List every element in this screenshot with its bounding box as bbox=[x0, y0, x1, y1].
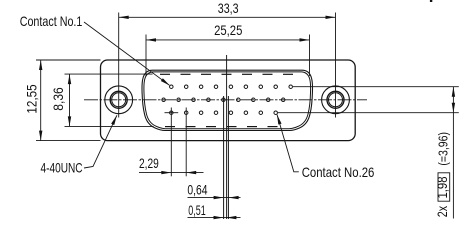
bottom row right extension bbox=[278, 112, 459, 114]
left hole vertical centerline / 33,3 extension bbox=[118, 13, 120, 118]
svg-text:(=3,96): (=3,96) bbox=[436, 132, 451, 166]
flange outline bbox=[101, 60, 356, 141]
svg-text:4-40UNC: 4-40UNC bbox=[41, 160, 83, 176]
dim 25,25 right extension bbox=[309, 35, 311, 77]
pin 19 extension line down bbox=[170, 108, 172, 177]
contacts middle row 10-18 bbox=[162, 98, 285, 102]
right dim line 2x1,98 bbox=[452, 87, 454, 219]
dim 8,36 bottom extension bbox=[65, 125, 154, 127]
leader arrow contact no.1 bbox=[161, 78, 171, 87]
0,51 arrows bbox=[214, 216, 224, 219]
dim 12,55 top extension bbox=[36, 59, 101, 61]
leader arrow 4-40UNC bbox=[111, 115, 118, 125]
dim 12,55 line bbox=[40, 60, 42, 141]
33,3 arrows bbox=[119, 16, 129, 19]
dim 33,3 line bbox=[119, 16, 336, 18]
contact tail right edge bbox=[227, 96, 229, 219]
horizontal centerline bbox=[84, 99, 367, 101]
svg-text:0,64: 0,64 bbox=[187, 182, 207, 198]
svg-text:0,51: 0,51 bbox=[188, 202, 206, 218]
shell outer outline bbox=[142, 70, 312, 130]
1,98 arrows bbox=[452, 87, 455, 97]
svg-text:8,36: 8,36 bbox=[50, 87, 66, 111]
12,55 arrows bbox=[39, 60, 42, 70]
shell inner outline bbox=[144, 72, 311, 129]
svg-text:25,25: 25,25 bbox=[214, 22, 242, 38]
right hole vertical centerline / 33,3 extension bbox=[335, 13, 337, 118]
svg-text:33,3: 33,3 bbox=[218, 0, 239, 16]
dim 12,55 bottom extension bbox=[36, 140, 101, 142]
svg-text:Contact No.1: Contact No.1 bbox=[20, 13, 83, 29]
dim 25,25 line bbox=[146, 39, 310, 41]
25,25 arrows bbox=[146, 38, 156, 41]
contacts top row 1-9 bbox=[170, 85, 293, 89]
leader contact no.26 bbox=[277, 115, 299, 172]
pin 19 center cross bbox=[165, 112, 179, 114]
svg-text:Contact No.26: Contact No.26 bbox=[302, 164, 375, 180]
contact tail left edge bbox=[223, 96, 225, 219]
insert top dashed edge bbox=[160, 73, 293, 75]
stray mark top bbox=[430, 0, 432, 2]
top row right extension bbox=[293, 86, 459, 88]
dim 0,51 line bbox=[188, 217, 241, 219]
svg-text:12,55: 12,55 bbox=[24, 84, 40, 113]
2,29 arrows bbox=[161, 171, 171, 174]
leader 4-40UNC bbox=[84, 115, 117, 168]
box around 1,98 bbox=[438, 173, 450, 201]
leader arrow contact no.26 bbox=[275, 114, 281, 125]
dim 25,25 left extension bbox=[145, 35, 147, 77]
dim 0,64 line bbox=[188, 197, 241, 199]
leader contact no.1 bbox=[84, 22, 169, 85]
0,64 arrows bbox=[214, 196, 224, 199]
svg-text:2x: 2x bbox=[434, 206, 450, 217]
right mounting hole bbox=[322, 86, 350, 114]
dim 2,29 line bbox=[139, 172, 204, 174]
contacts bottom row 19-26 bbox=[170, 111, 278, 115]
svg-text:1,98: 1,98 bbox=[434, 176, 450, 198]
dim 8,36 line bbox=[69, 74, 71, 126]
8,36 arrows bbox=[68, 74, 71, 84]
vertical centerline bbox=[226, 55, 228, 219]
svg-text:2,29: 2,29 bbox=[139, 155, 159, 171]
insert bottom dashed edge bbox=[165, 126, 278, 128]
dim 8,36 top extension bbox=[65, 73, 153, 75]
pin 20 extension line down bbox=[185, 108, 187, 177]
left mounting hole bbox=[105, 86, 133, 114]
